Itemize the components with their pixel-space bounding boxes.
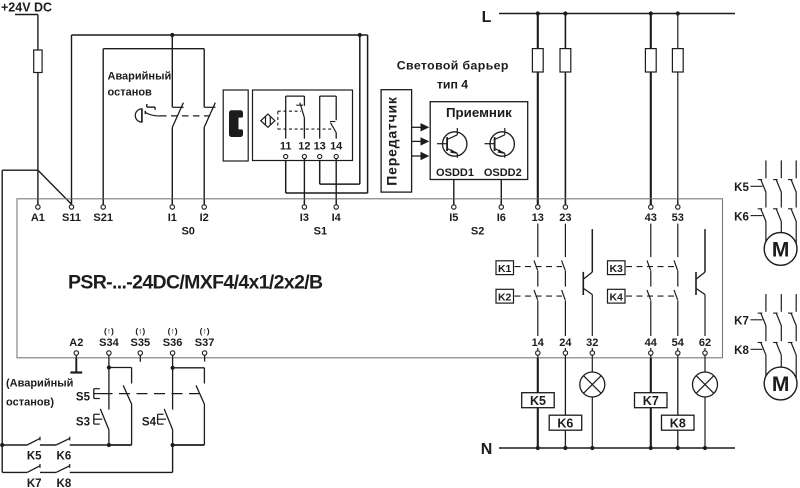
wire K8 coil to N: [676, 430, 680, 450]
contact S4 (NO): [164, 368, 175, 447]
svg-text:43: 43: [645, 212, 657, 224]
svg-text:K7: K7: [734, 316, 749, 328]
svg-text:OSDD1: OSDD1: [436, 167, 474, 179]
feedback contact K8: [40, 464, 173, 472]
wire lamp H1 to N: [590, 397, 594, 450]
feedback contact K5: [2, 437, 40, 445]
motor branch 2 phase stubs: [766, 294, 796, 299]
label non-latching mark: [135, 326, 145, 336]
mechanical link dashed K4 row: [626, 295, 675, 297]
terminal I6: [497, 199, 506, 224]
svg-text:32: 32: [586, 337, 598, 349]
node junction on top loop at inner branch: [358, 33, 362, 37]
contacts K3/K4 path 43-44: [647, 224, 651, 336]
wire K7 coil to N: [649, 408, 653, 450]
svg-text:K7: K7: [27, 478, 42, 488]
svg-text:(Аварийный: (Аварийный: [6, 378, 73, 390]
svg-text:K8: K8: [57, 478, 72, 488]
indicator lamp H2: [693, 372, 718, 397]
wire OSDD1 to I5: [453, 180, 455, 205]
labels OSDD1 OSDD2: [436, 167, 522, 179]
svg-text:останов): останов): [6, 397, 54, 409]
net label N: [481, 441, 493, 458]
svg-text:23: 23: [559, 212, 571, 224]
label relay type PSR: [68, 272, 323, 294]
terminal I5: [449, 199, 458, 224]
node junction on top loop at I1 branch: [170, 33, 174, 37]
relay coil K2: [496, 289, 514, 303]
wire L to terminal 13: [537, 14, 539, 205]
label K8 contacts: [734, 345, 762, 357]
fuse for 13: [532, 49, 543, 72]
ground symbol A2: [70, 371, 82, 373]
label group S2: [471, 226, 484, 238]
svg-text:K4: K4: [609, 291, 623, 303]
transmitter box: [381, 90, 412, 192]
wire S34 down: [107, 358, 111, 370]
wire N rail: [499, 447, 735, 449]
svg-text:(↑): (↑): [135, 326, 145, 336]
svg-text:K1: K1: [498, 263, 512, 275]
wire outer branch down to contact 11: [286, 35, 368, 193]
label K7 contacts: [734, 316, 762, 328]
svg-text:53: 53: [672, 212, 684, 224]
pin labels 11 12 13 14: [280, 141, 343, 153]
svg-text:13: 13: [532, 212, 544, 224]
svg-text:K6: K6: [734, 211, 749, 223]
wire L rail: [499, 13, 735, 15]
transistor OSDD2: [485, 128, 515, 158]
svg-text:N: N: [481, 441, 493, 458]
svg-text:OSDD2: OSDD2: [484, 167, 522, 179]
svg-text:останов: останов: [108, 87, 153, 99]
svg-text:S1: S1: [314, 226, 327, 238]
terminal 24: [559, 337, 572, 358]
label emergency stop: [108, 71, 172, 99]
terminal S11: [62, 199, 81, 224]
terminal S37: [195, 337, 215, 358]
wire feedback K7K8 riser: [172, 445, 174, 472]
wire S11 vertical: [71, 35, 73, 205]
wire K6 coil to N: [563, 430, 567, 450]
fuse for 53: [672, 49, 683, 72]
terminal S21: [93, 199, 113, 224]
wire 14 to I4: [335, 159, 337, 205]
svg-text:тип 4: тип 4: [437, 78, 468, 92]
svg-text:S21: S21: [93, 212, 113, 224]
contactor coil K6: [549, 415, 582, 430]
svg-text:S37: S37: [195, 337, 215, 349]
feedback contact K7: [2, 464, 40, 472]
svg-text:14: 14: [330, 141, 343, 153]
svg-text:L: L: [482, 9, 492, 26]
svg-text:S5: S5: [76, 392, 91, 404]
beam arrow 3: [412, 152, 430, 160]
wire 14 stub: [537, 348, 539, 351]
node junction L / 13: [536, 11, 540, 15]
pin terminals 11 12 13 14: [284, 154, 339, 158]
wire S11 top loop horizontal: [72, 34, 368, 36]
switch body box S1: [253, 90, 353, 161]
fuse F1 on +24V: [34, 50, 42, 73]
wire inner branch down to contact 13: [320, 35, 360, 184]
wire L to terminal 23: [564, 14, 566, 205]
manual actuator S3: [94, 414, 103, 424]
wire 44 stub: [650, 348, 652, 351]
output transistor for 32: [583, 229, 592, 336]
svg-text:Аварийный: Аварийный: [108, 71, 172, 83]
label S5: [76, 392, 91, 404]
wire diagonal +24V to S11: [38, 171, 71, 205]
svg-text:K7: K7: [643, 394, 659, 408]
wire +24V feed horizontal: [15, 14, 38, 16]
svg-text:44: 44: [645, 337, 658, 349]
contact S1 11-12 (NC): [286, 96, 305, 139]
svg-text:I4: I4: [332, 212, 342, 224]
wire 62 stub: [704, 348, 706, 351]
actuator box S1: [223, 90, 248, 161]
fuse for 43: [645, 49, 656, 72]
terminal I3: [300, 199, 309, 224]
contacts K1/K2 path 13-14: [534, 224, 538, 336]
relay coil K4: [608, 289, 626, 303]
emergency stop button S0 mushroom head: [135, 104, 160, 123]
contact S1 13-14 (NO): [320, 96, 337, 139]
contactor contacts K6 (3-pole): [758, 200, 797, 244]
fuse for 23: [560, 49, 571, 72]
svg-text:11: 11: [280, 141, 292, 153]
contact S0 channel 1 (NC): [172, 35, 183, 205]
svg-text:54: 54: [672, 337, 685, 349]
indicator lamp H1: [580, 372, 605, 397]
terminal I4: [332, 199, 342, 224]
terminal S34: [99, 337, 119, 358]
svg-text:M: M: [772, 239, 790, 262]
terminal I1: [168, 199, 177, 224]
contact S5 channel B: [173, 368, 205, 445]
manual actuator S4: [158, 414, 166, 424]
mechanical link dashed K1 row: [515, 266, 563, 268]
terminal S36: [163, 337, 183, 358]
node junction L / 23: [563, 11, 567, 15]
feedback contact K6: [40, 437, 109, 445]
wire 44 to K7 coil: [650, 358, 652, 393]
svg-text:S3: S3: [76, 417, 90, 429]
terminal 13: [532, 199, 544, 224]
wire 54 to K8 coil: [677, 358, 679, 415]
relay coil K3: [608, 261, 626, 275]
wire L to terminal 53: [677, 14, 679, 205]
contactor contacts K7 (3-pole): [758, 299, 797, 334]
terminal 53: [672, 199, 684, 224]
contactor contacts K5 (3-pole): [758, 165, 797, 200]
svg-text:K5: K5: [734, 182, 749, 194]
svg-text:S0: S0: [181, 226, 194, 238]
wire S21 vertical: [102, 49, 104, 205]
mechanical link dashed S5: [102, 393, 200, 395]
terminal 14: [532, 337, 545, 358]
terminal 62: [699, 337, 711, 358]
wire S37 stub: [204, 358, 206, 362]
label receiver: [446, 105, 512, 120]
svg-text:K6: K6: [57, 451, 72, 463]
svg-text:S2: S2: [471, 226, 484, 238]
svg-text:PSR-...-24DC/MXF4/4x1/2x2/B: PSR-...-24DC/MXF4/4x1/2x2/B: [68, 272, 323, 294]
wire fuse to A1: [37, 73, 39, 205]
label K6 contacts: [734, 211, 762, 223]
label transmitter (vertical): [383, 96, 399, 186]
contactor coil K7: [635, 393, 668, 408]
svg-text:I3: I3: [300, 212, 309, 224]
contacts K3/K4 path 53-54: [674, 224, 678, 336]
svg-text:I2: I2: [200, 212, 209, 224]
terminal I2: [200, 199, 209, 224]
contactor coil K8: [662, 415, 695, 430]
wire feedback tap horizontal: [2, 169, 38, 171]
terminal 43: [645, 199, 657, 224]
svg-text:K3: K3: [609, 263, 623, 275]
receiver box: [430, 102, 528, 180]
wire +24V vertical to fuse: [37, 15, 39, 51]
wire 54 stub: [677, 348, 679, 351]
wire S35 stub: [139, 358, 141, 362]
label S3: [76, 417, 90, 429]
node junction L / 53: [676, 11, 680, 15]
svg-text:S34: S34: [99, 337, 119, 349]
label light barrier type 4: [397, 58, 509, 91]
svg-text:K2: K2: [498, 291, 512, 303]
mechanical link dashed K3 row: [626, 266, 675, 268]
label S4: [142, 417, 157, 429]
wire 24 to K6 coil: [564, 358, 566, 415]
wire 32 to lamp: [591, 358, 593, 372]
svg-text:S11: S11: [62, 212, 81, 224]
wire 14 to K5 coil: [537, 358, 539, 393]
safety relay U1 box: [17, 199, 723, 358]
svg-text:(↑): (↑): [168, 326, 178, 336]
svg-text:S4: S4: [142, 417, 157, 429]
terminal S35: [131, 337, 151, 358]
beam arrow 2: [412, 137, 430, 145]
output transistor for 62: [696, 229, 705, 336]
wire A2 to ground: [75, 358, 77, 373]
net label L: [482, 9, 492, 26]
beam arrow 1: [412, 123, 430, 131]
terminal 54: [672, 337, 685, 358]
svg-text:14: 14: [532, 337, 545, 349]
contactor coil K5: [522, 393, 555, 408]
wire OSDD2 to I6: [500, 180, 502, 205]
label (emergency stop): [6, 378, 73, 409]
svg-text:+24V DC: +24V DC: [1, 1, 52, 15]
contact S5 channel A: [109, 368, 132, 446]
node feedback K5 row: [0, 443, 4, 447]
wire S36 down: [171, 358, 175, 370]
motor M1: [764, 233, 797, 266]
wire 12 to I3: [303, 159, 305, 205]
svg-text:K6: K6: [557, 416, 573, 430]
svg-text:K8: K8: [670, 416, 686, 430]
svg-text:A2: A2: [69, 337, 83, 349]
svg-text:I5: I5: [449, 212, 458, 224]
contact S3 (NO): [100, 368, 111, 448]
terminal 23: [559, 199, 571, 224]
wire 32 stub: [591, 348, 593, 351]
label K5 contacts: [734, 182, 762, 194]
svg-text:Световой барьер: Световой барьер: [397, 58, 509, 72]
svg-text:S36: S36: [163, 337, 183, 349]
actuator key icon: [229, 110, 243, 137]
svg-text:(↑): (↑): [104, 326, 114, 336]
contactor contacts K8 (3-pole): [758, 334, 797, 378]
terminal 32: [586, 337, 598, 358]
motor M2: [764, 367, 797, 400]
svg-text:M: M: [772, 373, 790, 396]
svg-text:62: 62: [699, 337, 711, 349]
svg-text:12: 12: [298, 141, 310, 153]
wire 62 to lamp: [704, 358, 706, 372]
mechanical link dashed door switch: [278, 111, 333, 129]
svg-text:K5: K5: [530, 394, 546, 408]
svg-text:Передатчик: Передатчик: [383, 96, 399, 186]
mechanical link dashed emergency stop: [160, 115, 209, 117]
svg-text:K5: K5: [27, 451, 42, 463]
svg-text:K8: K8: [734, 345, 749, 357]
wire K5 coil to N: [536, 408, 540, 450]
label group S1: [314, 226, 327, 238]
transistor OSDD1: [437, 128, 467, 158]
label non-latching mark: [168, 326, 178, 336]
labels K7 K8 feedback: [27, 478, 72, 488]
label non-latching mark: [200, 326, 210, 336]
motor branch 1 phase stubs: [766, 160, 796, 165]
label non-latching mark: [104, 326, 114, 336]
wire S21 loop to I2 contact: [103, 49, 204, 108]
labels K5 K6 feedback: [27, 451, 71, 463]
node junction L / 43: [649, 11, 653, 15]
svg-text:A1: A1: [31, 212, 45, 224]
svg-text:S35: S35: [131, 337, 151, 349]
svg-text:I1: I1: [168, 212, 177, 224]
svg-text:Приемник: Приемник: [446, 105, 512, 120]
contact S0 channel 2 (NC): [204, 103, 215, 205]
terminal A1: [31, 199, 45, 224]
wire lamp H2 to N: [703, 397, 707, 450]
label group S0: [181, 226, 194, 238]
contacts K1/K2 path 23-24: [562, 224, 566, 336]
svg-text:13: 13: [314, 141, 326, 153]
mechanical link dashed K2 row: [515, 295, 563, 297]
net label +24V DC: [1, 1, 52, 15]
svg-text:24: 24: [559, 337, 572, 349]
wire left feedback rail: [1, 170, 3, 472]
wire 24 stub: [564, 348, 566, 351]
interlock actuator symbol (diamond): [261, 114, 275, 127]
svg-text:(↑): (↑): [200, 326, 210, 336]
manual actuator S5: [94, 389, 102, 399]
terminal 44: [645, 337, 658, 358]
relay coil K1: [496, 261, 514, 275]
wire L to terminal 43: [650, 14, 652, 205]
svg-text:I6: I6: [497, 212, 506, 224]
terminal A2: [69, 337, 83, 358]
